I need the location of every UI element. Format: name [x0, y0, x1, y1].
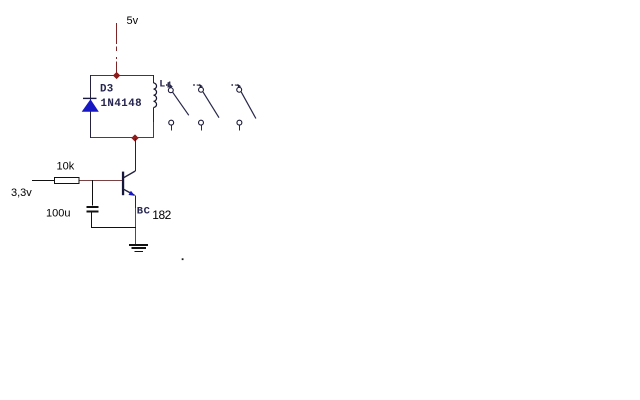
svg-text:1N4148: 1N4148 [101, 98, 143, 110]
svg-text:182: 182 [152, 208, 171, 222]
svg-text:100u: 100u [46, 208, 70, 220]
svg-text:5v: 5v [127, 15, 139, 27]
svg-text:L: L [159, 80, 165, 91]
svg-text:3,3v: 3,3v [11, 187, 32, 199]
svg-text:10k: 10k [57, 161, 75, 173]
svg-text:1: 1 [167, 81, 173, 91]
svg-text:BC: BC [137, 206, 151, 218]
svg-text:D3: D3 [100, 84, 114, 96]
